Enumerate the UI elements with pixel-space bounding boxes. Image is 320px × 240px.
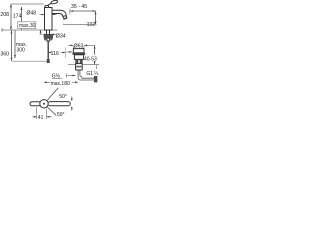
detail legs xyxy=(76,59,78,63)
svg-text:Ø34: Ø34 xyxy=(56,34,66,40)
swivel ray up 50 deg xyxy=(47,88,58,101)
extension ticks cap edges xyxy=(72,46,74,48)
dimension 208 line xyxy=(10,4,12,30)
svg-text:35 - 45: 35 - 45 xyxy=(71,4,87,10)
supply hose xyxy=(47,41,49,59)
top view spout pill xyxy=(48,102,70,106)
detail flange dark xyxy=(72,53,85,55)
svg-text:208: 208 xyxy=(0,12,9,18)
mounting nut xyxy=(44,35,53,38)
detail view: dimension diameter 63 xyxy=(68,44,73,46)
counter deck line xyxy=(2,29,58,31)
outlet level reference line xyxy=(63,24,97,26)
svg-text:Ø48: Ø48 xyxy=(26,10,36,16)
detail top reference line xyxy=(89,44,94,46)
leader arrow diameter 34 xyxy=(51,34,55,36)
spout tube xyxy=(52,10,66,16)
svg-text:50°: 50° xyxy=(57,112,65,118)
svg-text:116: 116 xyxy=(51,51,59,57)
svg-text:max.180: max.180 xyxy=(51,81,70,87)
svg-text:174: 174 xyxy=(13,14,22,20)
dimension 35-45 line xyxy=(70,10,95,12)
swivel ray down 50 deg xyxy=(47,107,56,116)
svg-text:G1¼: G1¼ xyxy=(86,71,99,77)
svg-text:300: 300 xyxy=(17,47,26,53)
spout width arrows top view xyxy=(71,96,73,101)
dimension 174 line xyxy=(21,7,23,30)
faucet lever handle stick xyxy=(45,3,52,7)
dimension max.300 line xyxy=(14,30,16,58)
dimension 41 extension lines xyxy=(36,107,38,119)
shank stub xyxy=(47,38,50,41)
dimension 116 xyxy=(48,52,50,54)
leader tick for G label xyxy=(96,65,98,69)
faucet lever knob xyxy=(51,0,58,4)
boxed label max.30 xyxy=(18,22,36,29)
hose bottom reference line xyxy=(12,60,47,62)
hose end fitting xyxy=(94,76,97,82)
extension tick at spout reach xyxy=(69,9,71,15)
detail cap xyxy=(73,49,84,53)
detail shank thread band xyxy=(76,66,82,68)
top view lever pill xyxy=(30,102,42,106)
top view center dot xyxy=(43,103,45,105)
arrow to shank edge xyxy=(66,75,75,77)
deck bottom line xyxy=(40,33,57,35)
svg-text:102: 102 xyxy=(87,22,96,28)
dimension diameter 48 arrows on body xyxy=(40,14,45,16)
top view circle base xyxy=(40,100,48,108)
extension line top of faucet xyxy=(11,3,44,5)
shank below deck xyxy=(46,30,48,35)
detail body xyxy=(74,55,83,60)
detail outlet pipe down xyxy=(77,70,79,78)
nut wing tabs xyxy=(44,38,46,40)
hose end fitting main view xyxy=(47,59,50,63)
faucet body front xyxy=(45,8,53,31)
svg-text:max.30: max.30 xyxy=(19,23,36,29)
lever base on body xyxy=(45,5,49,7)
dimension 360 line xyxy=(11,30,13,61)
dimension 40-53 line xyxy=(94,46,96,55)
dimension max.180 xyxy=(44,81,50,83)
max.30 deck thickness arrows xyxy=(40,30,42,34)
svg-text:40-53: 40-53 xyxy=(84,56,97,62)
svg-text:360: 360 xyxy=(0,52,9,58)
svg-text:41: 41 xyxy=(38,115,44,121)
underline G 3/8 xyxy=(52,77,62,79)
spout aerator outlet xyxy=(63,16,67,20)
dimension 102 line xyxy=(95,11,97,24)
detail bottom reference line xyxy=(68,63,99,65)
svg-text:50°: 50° xyxy=(59,94,67,100)
detail hose bend to right xyxy=(78,78,94,80)
leader arrow to flange edge xyxy=(66,51,72,53)
extension line spout tip xyxy=(65,48,67,59)
detail shank below xyxy=(76,64,83,70)
dimension 41 xyxy=(32,116,36,118)
